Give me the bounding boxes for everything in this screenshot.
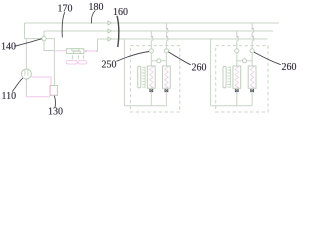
small valve A1 bowtie [150, 89, 153, 92]
svg-text:140: 140 [1, 42, 16, 53]
wire bus3 low pressure pipe [98, 38, 268, 40]
compressor 110 circle [21, 69, 31, 79]
svg-text:260: 260 [192, 63, 207, 74]
wire to compressor top [25, 39, 27, 70]
leader 160 [117, 16, 119, 47]
expansion device A2 body [233, 66, 241, 88]
wire below device B1 [165, 88, 167, 106]
wire valve right pink [84, 50, 98, 52]
hop unit1 pipe A over bus3 [151, 37, 153, 41]
leader 180 [91, 11, 95, 24]
svg-text:260: 260 [282, 62, 297, 73]
expansion device B2 zigzag [250, 66, 254, 87]
small valve B2 bowtie [251, 89, 254, 92]
wire unit1 pipe B from bus1 [165, 23, 167, 49]
indoor unit 2 dashed box [216, 46, 268, 112]
wire loop right [46, 39, 54, 51]
four-way valve body [66, 49, 84, 54]
leader 260 second [254, 52, 281, 65]
fins unit2 [228, 67, 231, 87]
heat exchanger capsule unit2 [223, 66, 226, 88]
wire node to bus2 [43, 31, 45, 37]
wire unit1 pipe A valve to component [150, 53, 152, 66]
svg-text:170: 170 [58, 4, 73, 15]
indoor unit 1 dashed box [130, 46, 179, 112]
fin comb line unit2 [229, 66, 231, 87]
wire below device A2 [236, 88, 238, 106]
valve pilot tick 2 [78, 55, 80, 59]
svg-text:180: 180 [89, 2, 104, 13]
leader 260 first [168, 52, 191, 65]
small valve B1 bowtie [165, 89, 168, 92]
arrow bus3 [107, 37, 109, 41]
compressor inner line 2 [27, 70, 29, 76]
leader 140 [14, 39, 42, 47]
wire below device B2 [251, 88, 253, 106]
bypass circle C2 [242, 59, 246, 63]
hop unit1 pipe B over bus2 [166, 29, 168, 33]
wire unit1 bottom pipe [124, 105, 166, 107]
valve circle A1 [149, 49, 153, 53]
wire bus1 gas pipe [25, 22, 280, 24]
wire compressor discharge pink [31, 77, 51, 86]
four-way valve inner top port [72, 49, 79, 51]
svg-text:250: 250 [102, 60, 117, 71]
wire unit2 pipe B from bus1 [251, 23, 253, 49]
solenoid capsule right [78, 61, 87, 64]
wire unit2 bottom pipe [211, 105, 253, 107]
expansion device A1 zigzag [150, 66, 154, 87]
valve pilot tick 3 [83, 55, 85, 59]
hop unit2 pipe A over bus3 [237, 37, 239, 41]
svg-text:110: 110 [2, 91, 17, 102]
expansion device B1 zigzag [165, 66, 169, 87]
svg-text:130: 130 [48, 107, 63, 118]
wire unit1 bridge [151, 60, 166, 62]
wire loop down [44, 41, 54, 51]
wire unit1 left drop [123, 39, 125, 106]
leader 110 [12, 78, 22, 91]
wire unit1 pipe A from bus2 [150, 31, 152, 49]
accumulator pink edge [50, 86, 57, 95]
valve circle B2 [250, 49, 254, 53]
leader 130 [54, 96, 55, 108]
hop unit2 pipe B over bus2 [252, 29, 254, 33]
leader 250 [116, 52, 149, 62]
wire unit2 bridge [237, 60, 252, 62]
small valve A2 bowtie [235, 89, 238, 92]
hop unit2 pipe B over bus3 [252, 37, 254, 41]
wire compressor suction down [25, 79, 27, 97]
wire bus2 liquid pipe [44, 30, 273, 32]
arrow bus1 [107, 21, 109, 25]
wire below device A1 [150, 88, 152, 106]
valve pilot tick 1 [72, 55, 74, 59]
fin comb line unit1 [144, 66, 146, 87]
fins unit1 [142, 67, 145, 87]
hop pink dots [151, 36, 153, 38]
bypass circle C1 [157, 59, 161, 63]
pink joint dot valve exit [85, 50, 87, 52]
node 140 check valve circle [42, 37, 46, 41]
valve circle B1 [164, 49, 168, 53]
wire unit2 left drop [210, 39, 212, 106]
svg-text:160: 160 [113, 7, 128, 18]
wire unit1 pipe B valve to component [165, 53, 167, 66]
accumulator 130 body [50, 86, 57, 96]
hop unit1 pipe B over bus3 [166, 37, 168, 41]
wire pink to valve [54, 50, 66, 52]
wire drop to accumulator [53, 51, 55, 86]
wire bus1 left drop [25, 23, 43, 39]
compressor inner line 1 [24, 70, 26, 76]
wire valve right up to bus3 [97, 39, 99, 51]
wire unit2 pipe A from bus2 [236, 31, 238, 49]
expansion device A2 zigzag [235, 66, 239, 87]
solenoid capsule left [66, 61, 77, 64]
expansion device B1 body [163, 66, 171, 88]
four-way valve inner slide [74, 51, 81, 53]
heat exchanger capsule unit1 [138, 66, 141, 88]
expansion device B2 body [248, 66, 256, 88]
expansion device A1 body [147, 66, 155, 88]
valve circle A2 [235, 49, 239, 53]
leader 170 [62, 12, 65, 37]
wire unit2 pipe B valve to component [251, 53, 253, 66]
wire unit2 pipe A valve to component [236, 53, 238, 66]
arrow bus2 [107, 29, 109, 33]
wire suction pink bottom [26, 96, 50, 98]
